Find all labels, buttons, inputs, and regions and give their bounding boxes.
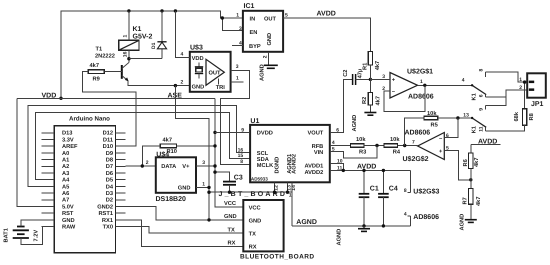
pin 14 AGND2 drop (291, 182, 293, 192)
wire contact 9 to JP1 node (485, 97, 505, 106)
wire VOUT pin 6 up to C2 (330, 79, 352, 132)
svg-text:AVDD: AVDD (317, 10, 336, 17)
svg-text:A0: A0 (62, 151, 69, 157)
svg-text:OUT: OUT (209, 71, 222, 77)
resistor R9 (88, 62, 122, 82)
wire digital ground bus horizontal (209, 192, 292, 226)
capacitor C2 (343, 69, 371, 85)
power symbol U$2G$3 pin 4 (404, 212, 439, 226)
svg-text:10k: 10k (427, 110, 437, 117)
wire TX0 to bluetooth TX (125, 227, 243, 234)
svg-text:U$2G$2: U$2G$2 (403, 155, 429, 163)
svg-text:10k: 10k (356, 136, 366, 143)
wire IC1 OUT to AVDD / R1 (283, 18, 370, 52)
svg-text:4k7: 4k7 (475, 197, 482, 207)
wire diode bottom to coil node (129, 58, 162, 60)
svg-text:R3: R3 (359, 150, 366, 156)
svg-text:K1: K1 (133, 26, 142, 33)
svg-text:VOUT: VOUT (307, 131, 323, 137)
svg-text:D6: D6 (106, 171, 113, 177)
svg-text:A7: A7 (62, 198, 69, 204)
svg-text:8: 8 (478, 69, 484, 72)
wire emitter to U$3 GND (128, 81, 190, 86)
wire battery minus to RAW pin (21, 227, 54, 245)
ground AGND under R7 (460, 214, 477, 231)
svg-text:AVDD2: AVDD2 (304, 170, 323, 176)
crystal symbol inside U$3 (195, 63, 203, 79)
svg-text:1: 1 (519, 77, 522, 83)
IC1 regulator (236, 3, 288, 58)
svg-text:GND: GND (192, 84, 205, 90)
connector JP1 (519, 73, 546, 108)
wire A4 to SDA bus (36, 112, 250, 179)
svg-text:JP1: JP1 (531, 101, 544, 108)
svg-text:4k7: 4k7 (163, 136, 173, 143)
svg-text:R7: R7 (463, 197, 469, 204)
svg-text:10: 10 (337, 158, 343, 164)
svg-text:D8: D8 (106, 158, 113, 164)
op-amp U$2G$1 (382, 68, 434, 101)
wire BYP stub (232, 45, 243, 47)
junction rail-U$3 VDD (174, 9, 177, 12)
svg-text:AREF: AREF (62, 144, 78, 150)
oscillator U$3 box (168, 43, 231, 99)
svg-text:8: 8 (240, 159, 243, 165)
svg-text:IC1: IC1 (244, 3, 255, 10)
svg-text:TX: TX (228, 227, 235, 233)
junction C2-R1-R2-opamp (369, 78, 372, 81)
svg-text:3: 3 (202, 160, 205, 166)
svg-text:6: 6 (446, 133, 449, 139)
svg-text:GND2: GND2 (97, 204, 113, 210)
svg-text:AD8606: AD8606 (405, 129, 431, 136)
svg-text:5.0V: 5.0V (62, 204, 74, 210)
svg-text:D7: D7 (106, 164, 113, 170)
svg-text:A6: A6 (62, 191, 69, 197)
svg-text:C3: C3 (234, 175, 243, 182)
svg-text:68k: 68k (513, 111, 520, 121)
junction IC1 IN node (221, 16, 224, 19)
battery BAT1 (4, 227, 40, 243)
svg-text:GND: GND (178, 186, 191, 192)
resistor R10 (160, 136, 177, 155)
svg-text:2: 2 (519, 85, 522, 91)
svg-text:GND: GND (62, 218, 75, 224)
svg-text:VDD: VDD (192, 56, 204, 62)
svg-text:5: 5 (332, 146, 335, 152)
svg-text:8: 8 (404, 188, 407, 194)
svg-text:RST: RST (62, 211, 74, 217)
svg-text:DVDD: DVDD (257, 131, 273, 137)
svg-text:3: 3 (236, 64, 239, 70)
svg-text:K1: K1 (472, 126, 478, 133)
ground AGND at IC1 (260, 64, 278, 81)
svg-text:R2: R2 (362, 97, 368, 104)
IC U1 AD5933 (250, 118, 330, 182)
resistor R4 (384, 136, 401, 156)
svg-text:AGND: AGND (336, 229, 342, 246)
contact 9 stub (484, 105, 486, 109)
svg-text:4k7: 4k7 (374, 96, 381, 106)
svg-text:G5V-2: G5V-2 (133, 34, 153, 41)
svg-text:VCC: VCC (224, 201, 236, 207)
wire output to K1 (418, 84, 473, 86)
wire -input pin 6 up to R5 node (444, 118, 458, 138)
svg-text:16: 16 (123, 51, 129, 57)
wire R3 to R4 (364, 145, 384, 147)
svg-text:D12: D12 (103, 131, 113, 137)
svg-text:U$3: U$3 (190, 43, 203, 51)
svg-text:D3: D3 (106, 191, 113, 197)
wire VIN pin 5 jog (330, 146, 377, 158)
svg-text:1: 1 (236, 76, 239, 82)
svg-text:AVDD: AVDD (478, 138, 497, 145)
ground symbol on AGND rail (336, 226, 370, 246)
wire U$4 GND pin 1 to ground bus (196, 186, 209, 188)
wire R9 base drive from Arduino D10 (83, 72, 136, 147)
resistor R8 (485, 80, 534, 130)
svg-text:4: 4 (181, 51, 184, 57)
svg-text:10k: 10k (390, 136, 400, 143)
svg-text:V+: V+ (182, 164, 190, 170)
contact 8 stub (484, 72, 486, 77)
svg-text:A2: A2 (62, 164, 69, 170)
svg-text:R8: R8 (529, 113, 535, 120)
wire AGND rail (292, 225, 411, 227)
wire contact 8 to JP1 pin 1 (485, 72, 527, 82)
svg-text:3.3V: 3.3V (62, 137, 74, 143)
svg-text:R9: R9 (93, 77, 100, 83)
svg-text:D5: D5 (106, 178, 113, 184)
svg-text:9: 9 (241, 128, 244, 134)
switch K1 lower blade (472, 118, 486, 127)
svg-text:EN: EN (250, 30, 258, 36)
header J_BT_BOARD bluetooth module (219, 191, 315, 260)
op-amp style triangle inside U$3 (206, 59, 224, 85)
relay K1 coil (119, 11, 153, 63)
svg-text:12: 12 (274, 185, 280, 191)
wire contact 6 to JP1 pin 2 (485, 90, 527, 97)
svg-text:RAW: RAW (62, 225, 76, 231)
svg-text:4: 4 (404, 212, 407, 218)
svg-text:K1: K1 (472, 93, 478, 100)
svg-text:U$4: U$4 (156, 150, 169, 158)
wire AVDD1 pin 10 (330, 163, 344, 170)
svg-text:13: 13 (463, 112, 469, 118)
wire EN feed from rail (222, 18, 243, 31)
svg-text:U$2G$1: U$2G$1 (407, 68, 433, 76)
svg-text:1: 1 (202, 181, 205, 187)
svg-text:C1: C1 (370, 186, 379, 193)
svg-text:Arduino Nano: Arduino Nano (69, 116, 110, 123)
resistor R7 (463, 180, 482, 219)
svg-text:DS18B20: DS18B20 (156, 196, 186, 203)
svg-text:ASE: ASE (168, 93, 183, 100)
svg-text:AGND: AGND (296, 219, 317, 226)
svg-text:GND: GND (267, 33, 273, 46)
wire AVDD2 pin 11 rail (330, 169, 411, 171)
junction rail-diode (160, 9, 163, 12)
junction VDD label node (59, 97, 62, 100)
svg-text:T1: T1 (96, 47, 103, 53)
svg-text:4k7: 4k7 (90, 62, 100, 69)
svg-text:7.2V: 7.2V (34, 230, 40, 242)
svg-text:DGND: DGND (274, 157, 280, 174)
wire VDD top rail (61, 11, 243, 98)
svg-text:AVDD1: AVDD1 (304, 164, 323, 170)
junction emitter-GND bus (174, 84, 177, 87)
svg-text:GND: GND (249, 218, 262, 224)
svg-text:14: 14 (291, 185, 297, 191)
wire VDD horizontal to bus (17, 97, 215, 99)
svg-text:AGND2: AGND2 (292, 154, 298, 174)
svg-text:RX: RX (228, 241, 236, 247)
wire RFB pin 4 (330, 145, 351, 147)
capacitor C3 (213, 170, 243, 192)
junction ground bus at bluetooth (207, 218, 210, 221)
svg-text:BLUETOOTH_BOARD: BLUETOOTH_BOARD (240, 253, 315, 260)
wire R10 right to VDD bus (177, 145, 215, 147)
wire RX1 to bluetooth RX (125, 220, 243, 247)
module Arduino Nano (42, 116, 126, 253)
resistor R6 (463, 145, 480, 180)
resistor R2 (362, 79, 381, 111)
capacitor C1 (359, 169, 379, 226)
junction R5 to -input (456, 116, 459, 119)
wire U$4 V+ pin 3 to VDD bus (196, 165, 215, 167)
svg-text:C2: C2 (343, 70, 349, 77)
svg-text:J_BT_BOARD: J_BT_BOARD (219, 191, 288, 198)
wire DVDD pin 9 (215, 131, 250, 133)
svg-text:TRI: TRI (216, 85, 226, 91)
svg-text:GND: GND (224, 214, 237, 220)
resistor R3 (351, 136, 367, 156)
pin 13 AGND1 drop (287, 182, 289, 192)
wire GND2 to bluetooth ground (125, 207, 243, 220)
diode D1 (151, 11, 167, 59)
svg-text:MCLK: MCLK (257, 163, 274, 169)
svg-text:IN: IN (250, 16, 256, 22)
svg-text:RST1: RST1 (98, 211, 113, 217)
svg-text:TX: TX (249, 231, 256, 237)
svg-text:D10: D10 (103, 144, 113, 150)
svg-text:9: 9 (479, 108, 485, 111)
svg-text:TX0: TX0 (103, 225, 113, 231)
svg-text:R4: R4 (393, 150, 401, 156)
svg-text:R6: R6 (463, 159, 469, 166)
svg-text:VIN: VIN (314, 150, 323, 156)
wire +in from C2 node (370, 78, 390, 80)
svg-text:BAT1: BAT1 (4, 228, 10, 242)
wire battery plus to GND pin (21, 220, 42, 227)
wire A5 to SCL bus (28, 105, 250, 186)
contact 6 stub (484, 95, 486, 97)
svg-text:D11: D11 (103, 137, 113, 143)
power symbol U$2G$3 pin 8 (404, 170, 440, 195)
svg-text:1: 1 (236, 13, 239, 19)
svg-text:11: 11 (479, 126, 485, 132)
svg-text:AD5933: AD5933 (251, 176, 268, 181)
resistor R1 (362, 52, 381, 80)
junction coil-collector-diode node (127, 57, 130, 60)
svg-text:A1: A1 (62, 158, 69, 164)
svg-text:4: 4 (332, 140, 335, 146)
resistor R5 feedback (405, 110, 472, 146)
wire AVDD stub at R6 (471, 144, 501, 146)
svg-text:6: 6 (336, 128, 339, 134)
pin 12 DGND drop (274, 182, 276, 192)
svg-text:AGND: AGND (260, 64, 266, 81)
svg-text:RX1: RX1 (102, 218, 113, 224)
capacitor C4 (378, 169, 398, 226)
svg-text:6: 6 (479, 94, 485, 97)
svg-text:BYP: BYP (249, 44, 261, 50)
svg-text:4k7: 4k7 (374, 61, 381, 71)
wire U$3 OUT pin 3 loop to MCLK (220, 70, 250, 164)
wire VDD down to 5.5V pin (17, 98, 42, 206)
wire feedback unity loop (384, 85, 425, 111)
svg-text:4k7: 4k7 (473, 158, 480, 168)
wire VDD vertical bus to BT VCC (215, 98, 243, 207)
junction DVDD-VDD (213, 131, 216, 134)
svg-text:D1: D1 (151, 42, 157, 49)
svg-text:R5: R5 (431, 122, 438, 128)
junction DATA-R10 (141, 164, 144, 167)
svg-text:RX: RX (249, 245, 257, 251)
svg-text:D13: D13 (62, 131, 72, 137)
junction divider node (469, 178, 472, 181)
svg-text:AGND: AGND (352, 115, 358, 132)
svg-text:AVDD: AVDD (357, 164, 376, 171)
wire IC1 GND pin 2 down (267, 52, 269, 65)
svg-text:VCC: VCC (249, 205, 261, 211)
svg-text:R1: R1 (362, 63, 368, 70)
svg-text:AD8606: AD8606 (408, 93, 434, 100)
wire +input pin 5 to divider (444, 150, 471, 180)
svg-text:AD8606: AD8606 (413, 214, 439, 221)
wire TRI pin 1 stub (231, 81, 244, 83)
svg-text:D4: D4 (106, 184, 114, 190)
junction R10-VDD (213, 144, 216, 147)
svg-text:2: 2 (146, 160, 149, 166)
svg-text:A3: A3 (62, 171, 69, 177)
svg-text:1: 1 (123, 35, 129, 38)
transistor T1 2N2222 (95, 47, 129, 82)
sensor U$4 DS18B20 (156, 150, 197, 203)
wire DATA from Arduino D7 (125, 165, 155, 167)
svg-text:2: 2 (263, 55, 269, 58)
junction rail-relay (127, 9, 130, 12)
svg-text:3: 3 (239, 26, 242, 32)
contact 11 stub (484, 127, 486, 131)
wire U$3 VDD pin 4 (175, 11, 189, 57)
svg-text:U$2G$3: U$2G$3 (413, 187, 439, 195)
wire R10 left to DATA (142, 146, 160, 166)
svg-text:U1: U1 (250, 118, 259, 125)
wire GND net U$3 to digital ground (175, 86, 209, 220)
svg-text:1: 1 (289, 192, 292, 198)
svg-text:A4: A4 (62, 178, 70, 184)
svg-text:A5: A5 (62, 184, 69, 190)
svg-text:2: 2 (181, 79, 184, 85)
wire R4 to op-amp output (397, 145, 417, 147)
switch K1 upper blade (472, 85, 486, 94)
svg-text:DATA: DATA (161, 164, 176, 170)
op-amp U$2G$2 mirrored (403, 129, 450, 163)
svg-text:4: 4 (462, 77, 465, 83)
svg-text:AGND: AGND (460, 214, 466, 231)
svg-text:OUT: OUT (264, 16, 277, 22)
svg-text:1: 1 (420, 79, 423, 85)
svg-text:D9: D9 (106, 151, 113, 157)
svg-text:7: 7 (412, 140, 415, 146)
ground AGND under R2 (352, 113, 376, 132)
svg-text:C4: C4 (389, 186, 398, 193)
svg-text:2N2222: 2N2222 (95, 53, 115, 59)
svg-text:D2: D2 (106, 198, 113, 204)
